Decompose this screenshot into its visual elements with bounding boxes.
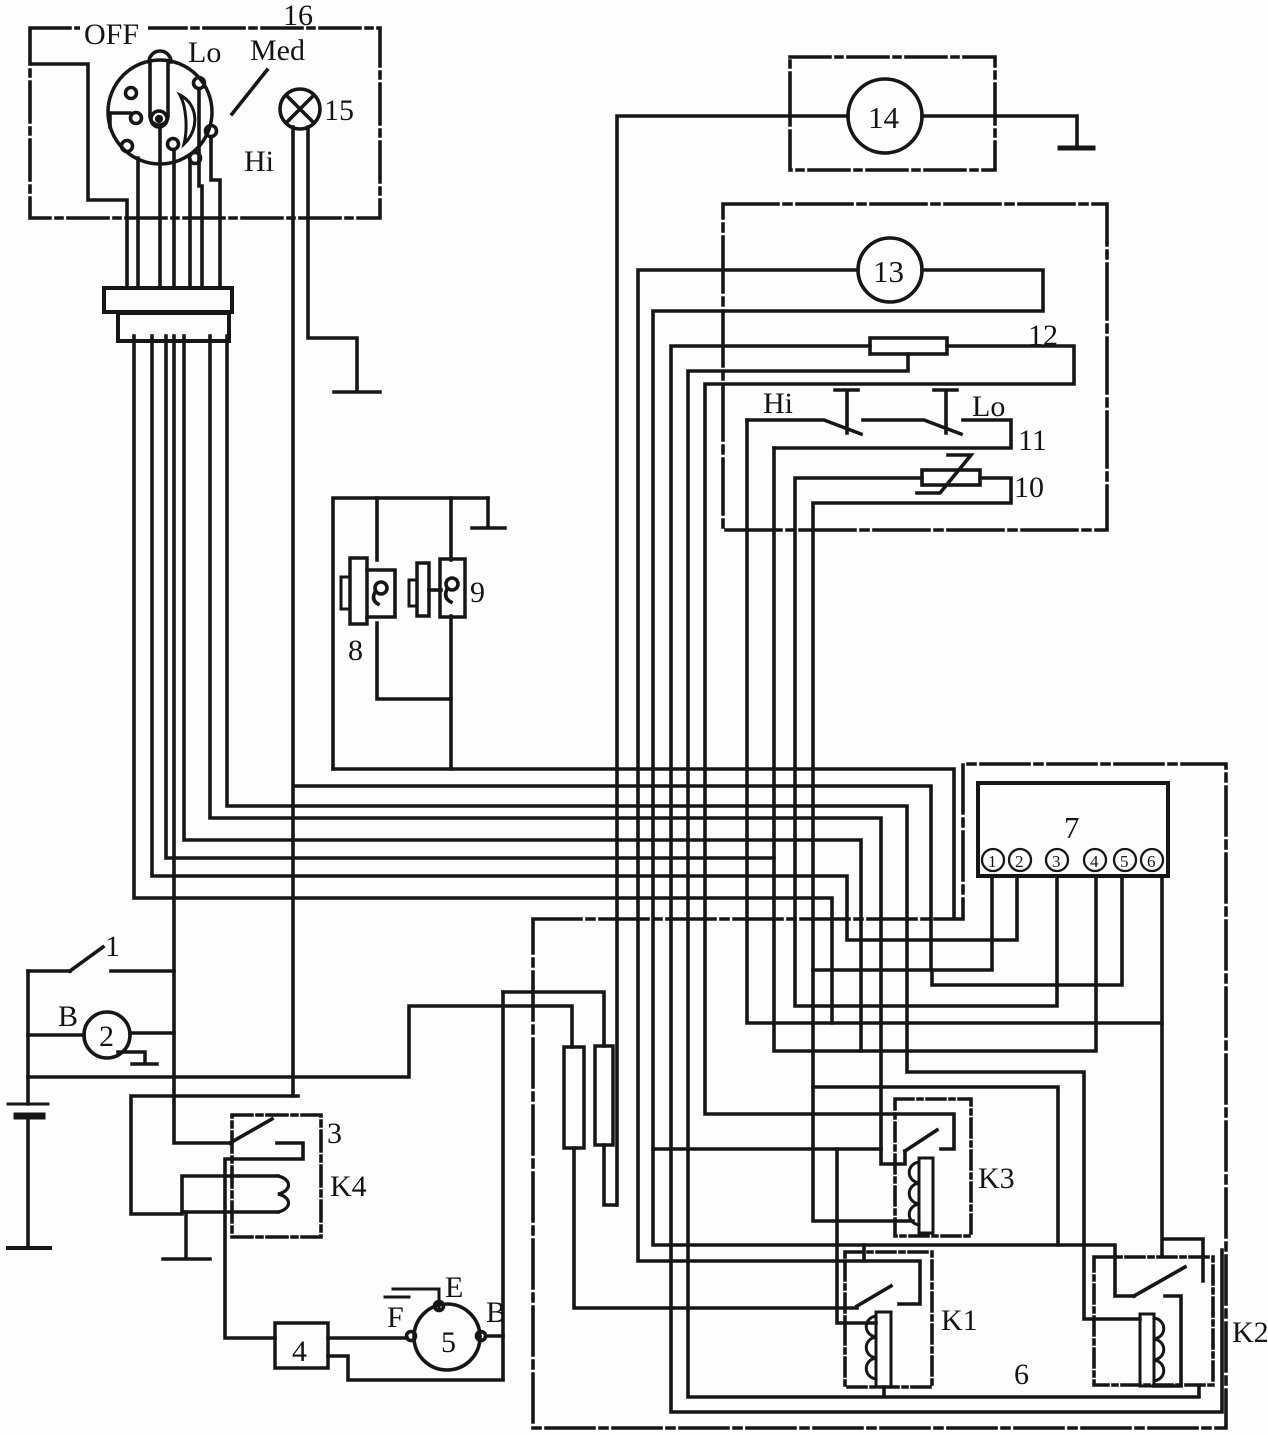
rotary switch hub xyxy=(151,111,167,127)
fuse B xyxy=(595,1046,613,1145)
svg-text:1: 1 xyxy=(105,930,120,963)
pin 1 circle xyxy=(982,849,1004,871)
relay K3 blade xyxy=(905,1130,937,1151)
relay K4 contact wire (to box 4) xyxy=(225,1143,303,1338)
lamp 15 xyxy=(280,89,320,129)
battery lead to ground xyxy=(26,1120,30,1247)
svg-text:4: 4 xyxy=(1090,852,1099,871)
wire node x653 to K3 pivot (y1149) xyxy=(653,1147,881,1151)
indicator 13 xyxy=(858,238,922,302)
dash-dot enclosure 6 (relay/right assembly) xyxy=(533,764,1226,1428)
generator terminal F xyxy=(407,1332,416,1341)
svg-text:10: 10 xyxy=(1014,471,1044,504)
relay K3 coil body xyxy=(919,1158,933,1233)
svg-text:15: 15 xyxy=(324,94,354,127)
wire rail (pin x172 down to K4 pivot) xyxy=(174,336,230,1143)
wire 11 bottom (down x774 to pin4) xyxy=(774,448,1096,1051)
box 7 connector (solid) xyxy=(978,783,1168,876)
rotary switch top tab xyxy=(149,51,171,62)
svg-text:K1: K1 xyxy=(941,1304,978,1337)
box 16 (blower switch enclosure, dash-dot) xyxy=(30,28,380,218)
wire bus (pin to bus y858, tee with wire 11) xyxy=(166,336,774,858)
fuse 10 diagonal xyxy=(917,455,971,493)
component 9 hook xyxy=(446,578,458,590)
svg-text:F: F xyxy=(387,1301,404,1334)
box 14 (blower motor, dash-dot) xyxy=(790,57,995,170)
component 9 left cap xyxy=(409,580,417,606)
rotary switch OFF arm xyxy=(110,113,130,127)
relay K1 coil scallops xyxy=(866,1316,876,1379)
relay K2 coil scallops xyxy=(1154,1318,1164,1381)
wire fuse B top to B+ rail xyxy=(503,992,604,1046)
component 9 mid body xyxy=(417,563,429,616)
wire pin1 branch (fuse 10 net y970) xyxy=(813,877,992,970)
svg-text:9: 9 xyxy=(470,576,485,609)
relay K4 coil box xyxy=(182,1176,278,1212)
fuse 10 xyxy=(922,470,980,485)
wire box 4 bottom loop xyxy=(328,1356,503,1380)
wire 12 left feed xyxy=(671,346,1222,1412)
svg-text:Lo: Lo xyxy=(188,36,221,69)
svg-text:Hi: Hi xyxy=(244,145,274,178)
component 8 body xyxy=(350,558,367,624)
wire lamp branch to ground xyxy=(308,127,357,390)
svg-text:1: 1 xyxy=(988,852,997,871)
ground (box 8/9) xyxy=(472,498,505,528)
rotary switch crescent slot xyxy=(180,95,195,144)
wire 13 right loop (down x653 to K2 pivot feed) xyxy=(653,270,1134,1296)
svg-text:11: 11 xyxy=(1018,424,1047,457)
wire generator B to rail xyxy=(486,1334,503,1338)
wire 10 net riser (y1087 to K2 pivot net) xyxy=(813,1087,1058,1245)
wire box4 to generator F xyxy=(328,1336,407,1340)
pin 3 circle xyxy=(1046,849,1068,871)
connector X1 upper half xyxy=(104,288,232,312)
pin 2 circle xyxy=(1009,849,1031,871)
battery negative plate xyxy=(17,1113,42,1120)
wire tee K1 contact drop xyxy=(862,1245,866,1261)
wire generator E ground arm xyxy=(385,1289,439,1309)
svg-text:2: 2 xyxy=(1015,852,1024,871)
relay K4 blade xyxy=(230,1119,272,1143)
box 13 (control head, dash-dot) xyxy=(723,204,1107,530)
wire OFF lead (left L into connector) xyxy=(32,64,127,288)
relay K1 coil body xyxy=(876,1312,891,1387)
fuse A xyxy=(564,1047,584,1148)
wire bus from box 8/9 (y769 into dash-dot corner) xyxy=(333,769,954,917)
wire 10 left (down x795 along y1006 to pin3) xyxy=(795,478,1057,1006)
component 8 hook xyxy=(375,582,387,594)
svg-text:OFF: OFF xyxy=(84,18,139,51)
wire fuse A bottom to K1 pivot xyxy=(574,1148,857,1308)
switch 1 wire left xyxy=(28,969,70,973)
wire lamp 15 feed (bus y786 to pin1) xyxy=(293,127,931,1096)
pin 6 circle xyxy=(1141,849,1163,871)
generator terminal B xyxy=(477,1332,486,1341)
svg-text:Hi: Hi xyxy=(763,387,793,420)
ground (motor 14) xyxy=(1060,146,1093,151)
rotary switch S1 body xyxy=(108,60,212,164)
wire through component 9 xyxy=(449,498,453,769)
svg-text:K3: K3 xyxy=(978,1162,1015,1195)
svg-text:B: B xyxy=(486,1296,506,1329)
svg-text:5: 5 xyxy=(441,1326,456,1359)
battery positive plate xyxy=(8,1103,48,1106)
box 4 xyxy=(275,1323,328,1368)
svg-text:7: 7 xyxy=(1064,810,1080,845)
gauge 2 xyxy=(84,1012,130,1058)
svg-text:4: 4 xyxy=(292,1335,307,1368)
svg-text:E: E xyxy=(445,1271,463,1304)
relay K2 coil body xyxy=(1140,1314,1154,1386)
svg-text:8: 8 xyxy=(348,634,363,667)
ground (lamp branch) xyxy=(334,390,380,394)
wire K3 pivot feed xyxy=(881,1149,905,1164)
svg-text:K2: K2 xyxy=(1232,1316,1268,1349)
box 8/9 enclosure left edge xyxy=(333,498,488,769)
switch 1 blade xyxy=(70,947,103,971)
wire 11 top (down x750 to pin6 net y1023) xyxy=(747,420,1162,1023)
connector X1 lower half xyxy=(118,313,229,341)
svg-text:5: 5 xyxy=(1120,852,1129,871)
relay K1 blade xyxy=(857,1286,891,1306)
svg-text:2: 2 xyxy=(99,1020,114,1053)
motor 14 xyxy=(848,79,922,153)
wire K1 coil top feed (from y1149 node) xyxy=(837,1149,876,1323)
wire motor 14 right to ground xyxy=(922,116,1077,147)
wire gauge 2 left xyxy=(28,1033,84,1037)
component 9 socket xyxy=(440,559,465,617)
svg-text:6: 6 xyxy=(1147,852,1156,871)
switch 11 Hi contact tee xyxy=(835,390,858,433)
label OFF (on border) xyxy=(80,18,148,40)
wire bus (pin to bus y840 tee on y1001) xyxy=(184,336,861,1051)
svg-text:B: B xyxy=(58,1000,78,1033)
component 9 link xyxy=(429,588,441,592)
wire bus (pin to bus y806 to K2 coil) xyxy=(227,336,1140,1319)
wire 13 left (down to K1 contact loop) xyxy=(638,270,920,1304)
svg-text:6: 6 xyxy=(1014,1358,1029,1391)
svg-text:Lo: Lo xyxy=(972,390,1005,423)
svg-text:Med: Med xyxy=(250,34,305,67)
wire K4 coil feed xyxy=(131,1096,298,1214)
switch leads into connector xyxy=(136,158,140,288)
pin 5 circle xyxy=(1114,849,1136,871)
switch 11 wire and blades xyxy=(747,420,1011,448)
wire B+ rail (down to starter loop) xyxy=(501,992,505,1379)
wire through component 8 xyxy=(377,498,451,699)
box K4 (dash-dot) xyxy=(232,1115,321,1237)
wire battery node to fuse A xyxy=(28,1006,572,1077)
wire 12 right (down x705 to K3 contact) xyxy=(705,346,1074,1149)
wire K2 coil bottom loop xyxy=(1154,1296,1181,1386)
box K2 (dash-dot) xyxy=(1094,1257,1213,1385)
box K1 (dash-dot) xyxy=(845,1252,932,1387)
box K3 (dash-dot) xyxy=(895,1099,971,1236)
generator terminal E xyxy=(435,1302,444,1311)
switch 1 wire right xyxy=(111,969,174,973)
switch 11 Lo contact tee xyxy=(934,390,957,433)
wire bus Hi (pin to bus y898 to pin6 riser) xyxy=(134,336,832,1023)
wire pin5 jog from y970 xyxy=(932,877,1122,985)
wire 12 bottom tap (down to K1 coil bottom) xyxy=(688,354,1199,1397)
ground stub (gauge 2) xyxy=(118,1052,157,1064)
ground (battery) xyxy=(8,1246,50,1250)
resistor 12 xyxy=(870,338,947,354)
relay K4 coil scallops xyxy=(278,1176,289,1212)
wire pin6 (down to K2 contact) xyxy=(1162,877,1203,1281)
relay K3 coil scallops xyxy=(909,1162,919,1225)
svg-text:3: 3 xyxy=(1052,852,1061,871)
relay K2 blade xyxy=(1134,1267,1185,1296)
svg-text:3: 3 xyxy=(327,1117,342,1150)
wire gauge 2 right xyxy=(130,1031,174,1035)
svg-text:16: 16 xyxy=(283,0,313,32)
component 8 socket xyxy=(367,570,395,617)
Med pointer line xyxy=(232,70,267,114)
wire fuse B bottom jog xyxy=(604,1145,616,1205)
pin 4 circle xyxy=(1084,849,1106,871)
wire bus (pin to bus y818 to pin5) xyxy=(210,336,881,1149)
wire bus (pin to bus y876 to pin2) xyxy=(152,336,1017,940)
svg-text:14: 14 xyxy=(868,100,900,135)
ground (K4 coil) xyxy=(163,1212,210,1259)
wire 10 right (down x813 to K3 coil bottom) xyxy=(813,478,1011,1221)
generator 5 xyxy=(414,1304,480,1370)
rotary switch inner slot xyxy=(150,64,168,125)
rotary switch rim contacts xyxy=(126,88,137,99)
svg-text:K4: K4 xyxy=(330,1170,367,1203)
component 8 left cap xyxy=(341,577,350,609)
svg-text:13: 13 xyxy=(873,254,904,289)
wire motor 14 left (down to fuse B bottom) xyxy=(617,116,848,1205)
wire left rail (switch 1 to battery) xyxy=(26,971,30,1104)
